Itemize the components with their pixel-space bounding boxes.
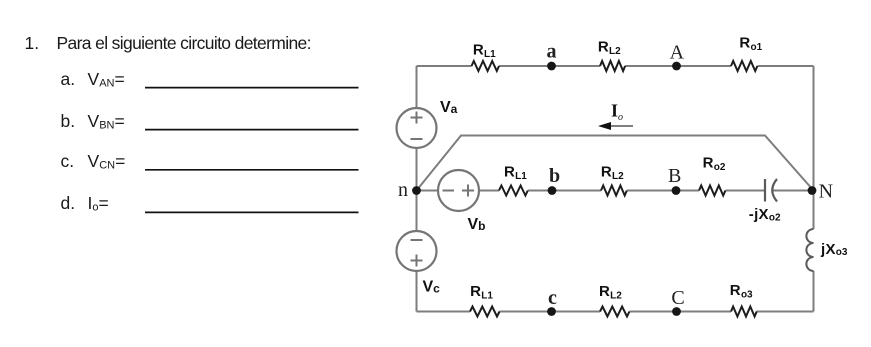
resistor RL1 mid	[499, 186, 528, 196]
wire left rail	[416, 66, 418, 108]
svg-text:Va: Va	[440, 99, 458, 116]
svg-text:Ro1: Ro1	[739, 35, 762, 54]
svg-text:jXo3: jXo3	[820, 241, 848, 258]
blank line a	[145, 87, 359, 89]
svg-text:RL2: RL2	[601, 164, 624, 183]
arrow Io	[610, 125, 633, 127]
resistor RL1 bottom	[470, 307, 499, 317]
node a	[547, 62, 556, 71]
inductor jXo3	[806, 229, 813, 271]
svg-text:C: C	[671, 287, 684, 309]
svg-text:Vc: Vc	[423, 279, 441, 296]
blank line b	[145, 129, 359, 131]
wire middle row	[417, 190, 438, 192]
svg-text:Ro2: Ro2	[703, 155, 726, 174]
wire bottom rail	[417, 311, 471, 313]
svg-text:b.: b.	[61, 111, 76, 131]
node N	[808, 186, 817, 195]
svg-text:n: n	[398, 179, 408, 201]
svg-text:VBN=: VBN=	[88, 111, 125, 132]
node b	[548, 186, 557, 195]
svg-text:N: N	[819, 181, 833, 203]
source Vc	[397, 231, 437, 271]
resistor Ro2	[699, 186, 725, 196]
svg-text:Para el siguiente circuito det: Para el siguiente circuito determine:	[57, 33, 312, 53]
svg-text:a: a	[547, 41, 557, 63]
svg-text:Io=: Io=	[88, 193, 109, 214]
source Vb	[438, 170, 479, 211]
svg-text:RL2: RL2	[599, 283, 622, 302]
svg-text:RL1: RL1	[504, 164, 527, 183]
blank line d	[145, 211, 359, 213]
svg-text:A: A	[670, 42, 685, 64]
svg-text:c: c	[548, 287, 557, 309]
svg-text:d.: d.	[61, 193, 76, 213]
svg-text:-jXo2: -jXo2	[749, 206, 781, 224]
wire neutral return (Io path)	[417, 136, 814, 191]
svg-text:a.: a.	[61, 69, 76, 89]
resistor RL2 top	[600, 61, 625, 71]
node B	[672, 186, 681, 195]
blank line c	[145, 169, 359, 171]
svg-text:RL2: RL2	[598, 39, 621, 58]
capacitor -jXo2	[765, 179, 777, 202]
node A	[672, 62, 681, 71]
svg-text:c.: c.	[61, 151, 75, 171]
node c	[547, 307, 556, 316]
resistor RL2 mid	[601, 186, 627, 196]
svg-text:VAN=: VAN=	[88, 69, 125, 90]
node dots	[412, 62, 816, 316]
node C	[672, 307, 681, 316]
node n	[412, 186, 421, 195]
svg-text:RL1: RL1	[470, 283, 493, 302]
resistor RL2 bottom	[600, 307, 629, 317]
svg-text:b: b	[549, 165, 560, 187]
svg-text:Io: Io	[611, 101, 623, 124]
svg-text:VCN=: VCN=	[88, 151, 126, 172]
svg-text:B: B	[668, 165, 681, 187]
svg-text:Vb: Vb	[468, 216, 486, 233]
resistor Ro3	[731, 307, 757, 317]
wire right rail	[813, 66, 815, 229]
svg-text:RL1: RL1	[473, 42, 496, 61]
svg-text:1.: 1.	[25, 33, 40, 53]
wire top rail	[417, 65, 472, 67]
resistor RL1 top	[472, 61, 500, 71]
source Va	[397, 108, 437, 148]
svg-text:Ro3: Ro3	[730, 282, 753, 301]
resistor Ro1	[731, 61, 757, 71]
